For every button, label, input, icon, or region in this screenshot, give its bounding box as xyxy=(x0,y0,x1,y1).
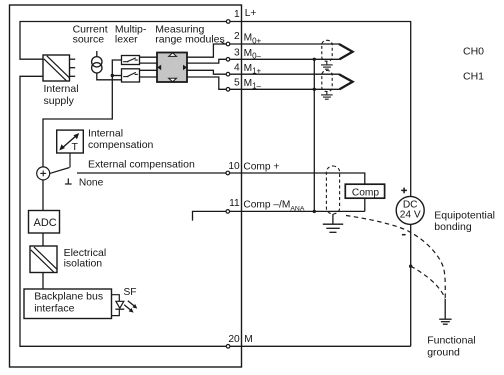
internal compensation box xyxy=(57,130,84,153)
wires mux to measuring module xyxy=(140,56,158,58)
ADC box xyxy=(29,211,60,234)
svg-text:Comp –/MANA: Comp –/MANA xyxy=(243,200,304,213)
svg-text:CH1: CH1 xyxy=(463,70,484,82)
svg-text:SF: SF xyxy=(124,287,137,298)
wire module out to terminal 5 xyxy=(187,77,228,89)
wire compensation select stem xyxy=(69,153,71,167)
svg-text:Comp: Comp xyxy=(352,187,380,198)
wire terminal 3 to thermocouple CH0 xyxy=(228,58,340,60)
shield CH1 xyxy=(322,71,332,92)
terminal 11 xyxy=(226,210,230,214)
svg-text:11: 11 xyxy=(229,198,240,209)
dashed ground connection curve xyxy=(411,266,445,298)
internal supply U1 box xyxy=(43,55,75,81)
terminal 10 xyxy=(226,171,230,175)
shield CH0 xyxy=(322,40,332,61)
svg-text:M0+: M0+ xyxy=(244,33,262,46)
svg-text:M: M xyxy=(244,334,253,345)
DC 24 V source xyxy=(396,196,424,224)
LED SF xyxy=(115,301,124,309)
wire Comp- terminal 11 xyxy=(193,211,365,220)
thermocouple CH1 xyxy=(339,74,353,89)
wire current source to multiplexer xyxy=(97,73,122,80)
functional ground symbol xyxy=(439,299,451,324)
wire SF LED loop xyxy=(112,295,120,302)
terminal 20 xyxy=(226,345,230,349)
junction mux bus xyxy=(111,74,114,77)
terminal 2 xyxy=(226,42,230,46)
svg-text:24 V: 24 V xyxy=(400,209,421,220)
svg-text:10: 10 xyxy=(228,161,240,172)
wire bus to mux switch 2 xyxy=(112,75,121,77)
wire Comp+ terminal 10 xyxy=(77,173,365,211)
electrical isolation box xyxy=(30,246,57,273)
junction M0- xyxy=(313,58,316,61)
ground shield compensation xyxy=(323,214,343,232)
terminal 3 xyxy=(226,58,230,62)
svg-text:Comp +: Comp + xyxy=(243,162,279,173)
svg-text:isolation: isolation xyxy=(64,257,103,269)
svg-text:L+: L+ xyxy=(245,8,257,19)
svg-text:4: 4 xyxy=(234,62,240,73)
svg-text:Equipotential: Equipotential xyxy=(434,209,495,221)
svg-text:compensation: compensation xyxy=(88,139,154,151)
none position symbol xyxy=(65,178,72,184)
multiplexer switch S2 xyxy=(122,69,140,82)
svg-text:5: 5 xyxy=(234,77,240,88)
svg-text:ADC: ADC xyxy=(34,217,57,229)
svg-text:bonding: bonding xyxy=(434,221,472,233)
shield compensation cable xyxy=(326,166,339,214)
thermocouple CH0 xyxy=(339,44,353,59)
label plus xyxy=(401,188,407,194)
backplane bus interface box xyxy=(24,289,112,319)
ground shield CH0 xyxy=(321,62,333,70)
svg-text:interface: interface xyxy=(34,302,74,314)
wire M rail: supply to terminal 20 and DC 24 V minus xyxy=(20,76,411,346)
dashed equipotential bonding curve xyxy=(346,216,445,299)
wire terminal 4 to thermocouple CH1 xyxy=(228,73,339,75)
wire terminal 5 to thermocouple CH1 xyxy=(228,88,340,90)
wire M- analog bus xyxy=(313,59,315,211)
switch lever compensation select xyxy=(50,168,70,174)
svg-text:supply: supply xyxy=(44,95,75,107)
svg-text:20: 20 xyxy=(228,334,240,345)
svg-text:source: source xyxy=(73,34,105,46)
svg-text:ground: ground xyxy=(427,347,460,359)
svg-text:Functional: Functional xyxy=(427,335,475,347)
LED light arrows xyxy=(124,301,137,313)
summing point xyxy=(37,167,50,180)
svg-text:CH0: CH0 xyxy=(463,46,484,58)
wire ADC to isolation xyxy=(42,233,44,246)
wire terminal 2 to thermocouple CH0 xyxy=(228,43,339,45)
measuring range module box xyxy=(157,53,187,83)
terminal 4 xyxy=(226,72,230,76)
leader from label to terminal 2 xyxy=(221,41,227,44)
wire isolation to backplane xyxy=(42,273,44,290)
terminal 5 xyxy=(226,88,230,92)
junction M rail xyxy=(409,265,412,268)
svg-text:None: None xyxy=(79,177,104,188)
junction M1- xyxy=(313,88,316,91)
svg-text:Internal: Internal xyxy=(88,127,123,139)
wire module out to terminal 4 xyxy=(187,70,228,74)
svg-text:M1+: M1+ xyxy=(244,63,262,76)
svg-text:External compensation: External compensation xyxy=(88,159,195,171)
svg-text:M1–: M1– xyxy=(244,78,262,91)
svg-text:M0–: M0– xyxy=(244,48,262,61)
svg-text:3: 3 xyxy=(234,47,240,58)
svg-text:2: 2 xyxy=(234,31,240,42)
wire ADC input xyxy=(42,180,44,211)
terminal 1 xyxy=(226,20,230,24)
module outer box xyxy=(10,5,242,367)
wire L+ rail left: terminal 1 to internal supply xyxy=(20,22,228,60)
svg-text:1: 1 xyxy=(234,9,240,20)
svg-text:T: T xyxy=(72,141,79,153)
ground shield CH1 xyxy=(321,92,333,100)
wire mux bus vertical xyxy=(43,60,122,167)
current source G1 xyxy=(92,51,102,73)
wire module out to terminal 2 xyxy=(187,44,228,57)
wire L+ rail right: terminal 1 to DC 24 V xyxy=(228,22,411,347)
Comp box xyxy=(345,184,384,198)
svg-text:Backplane bus: Backplane bus xyxy=(34,291,103,303)
multiplexer switch S1 xyxy=(122,56,140,65)
junction M analog xyxy=(313,210,316,213)
svg-text:lexer: lexer xyxy=(115,34,138,46)
svg-text:Internal: Internal xyxy=(44,83,79,95)
label minus xyxy=(402,234,406,236)
wire module out to terminal 3 xyxy=(187,59,228,63)
